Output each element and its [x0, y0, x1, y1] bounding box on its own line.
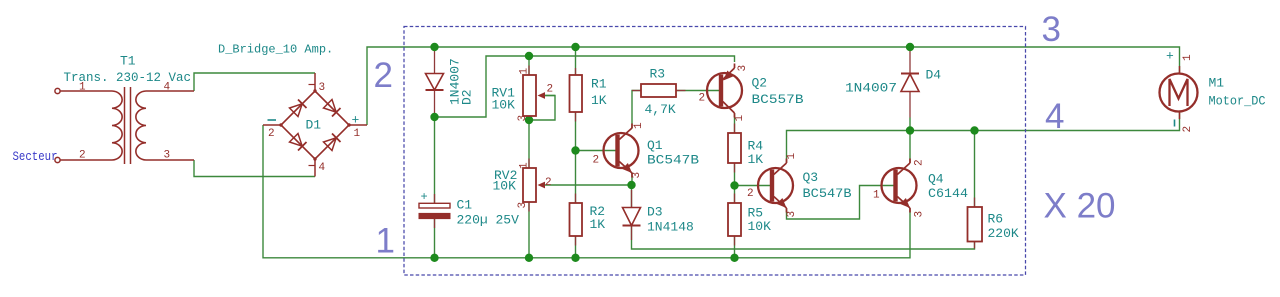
svg-text:2: 2 [374, 56, 393, 95]
svg-text:D4: D4 [926, 68, 942, 83]
svg-text:3: 3 [164, 150, 171, 162]
svg-text:BC557B: BC557B [752, 92, 804, 107]
svg-text:3: 3 [517, 202, 529, 209]
svg-text:2: 2 [699, 93, 706, 105]
svg-text:+: + [1166, 49, 1174, 64]
svg-text:10K: 10K [492, 98, 516, 113]
svg-text:1K: 1K [748, 152, 764, 167]
svg-text:BC547B: BC547B [803, 186, 852, 201]
svg-text:1: 1 [79, 82, 86, 94]
svg-text:T1: T1 [120, 54, 136, 69]
svg-text:D_Bridge_10 Amp.: D_Bridge_10 Amp. [218, 43, 333, 57]
svg-text:+: + [421, 190, 428, 204]
svg-text:2: 2 [914, 159, 926, 166]
svg-text:+: + [352, 113, 360, 128]
svg-text:2: 2 [268, 128, 275, 140]
svg-text:4: 4 [164, 82, 171, 94]
svg-text:X 20: X 20 [1044, 187, 1116, 226]
svg-text:4: 4 [319, 162, 326, 174]
svg-text:10K: 10K [493, 179, 517, 194]
svg-text:220µ 25V: 220µ 25V [457, 213, 520, 228]
svg-text:1N4148: 1N4148 [647, 220, 694, 235]
svg-text:1K: 1K [591, 93, 607, 108]
svg-text:3: 3 [631, 172, 643, 179]
svg-text:3: 3 [517, 115, 529, 122]
svg-text:D3: D3 [647, 205, 663, 220]
svg-text:2: 2 [1182, 126, 1194, 133]
svg-text:2: 2 [79, 150, 86, 162]
svg-text:3: 3 [319, 82, 326, 94]
svg-text:BC547B: BC547B [647, 153, 699, 168]
svg-text:10K: 10K [748, 219, 772, 234]
svg-text:C6144: C6144 [928, 186, 968, 201]
svg-text:Q3: Q3 [803, 170, 819, 185]
svg-text:2: 2 [545, 177, 552, 189]
svg-text:1: 1 [519, 68, 531, 75]
svg-text:4,7K: 4,7K [645, 102, 676, 117]
svg-text:3: 3 [914, 211, 926, 218]
svg-text:1: 1 [633, 122, 645, 129]
svg-text:Q1: Q1 [647, 138, 663, 153]
svg-text:220K: 220K [988, 226, 1019, 241]
svg-text:1: 1 [734, 115, 746, 122]
svg-text:1: 1 [376, 222, 395, 261]
svg-text:2: 2 [593, 155, 600, 167]
svg-text:2: 2 [747, 188, 754, 200]
svg-text:R1: R1 [591, 77, 607, 92]
svg-text:1K: 1K [590, 217, 606, 232]
svg-text:C1: C1 [457, 198, 473, 213]
svg-text:D1: D1 [306, 118, 322, 133]
svg-text:R6: R6 [988, 212, 1004, 227]
svg-text:R3: R3 [650, 67, 666, 82]
svg-text:1: 1 [519, 162, 531, 169]
svg-text:1: 1 [354, 128, 361, 140]
svg-text:M1: M1 [1209, 76, 1225, 91]
svg-text:D2: D2 [460, 89, 475, 105]
svg-text:Q2: Q2 [752, 76, 768, 91]
svg-text:3: 3 [786, 211, 798, 218]
svg-text:Motor_DC: Motor_DC [1209, 94, 1266, 109]
svg-text:1N4007: 1N4007 [845, 81, 897, 96]
svg-text:3: 3 [1042, 10, 1061, 49]
svg-text:Q4: Q4 [928, 172, 944, 187]
svg-text:3: 3 [737, 65, 749, 72]
svg-text:Secteur: Secteur [13, 149, 58, 164]
svg-text:1: 1 [873, 190, 880, 202]
svg-text:2: 2 [547, 84, 554, 96]
svg-text:4: 4 [1045, 97, 1064, 136]
svg-text:1: 1 [1182, 54, 1194, 61]
svg-text:1: 1 [786, 153, 798, 160]
